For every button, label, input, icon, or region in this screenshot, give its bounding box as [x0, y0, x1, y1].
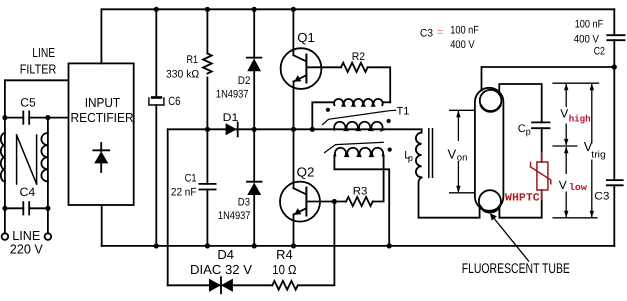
wire C6 branch bottom	[155, 105, 157, 246]
measurement tick top	[552, 82, 599, 84]
wire oscillator drop (bus to diac rail)	[167, 129, 169, 285]
capacitor C1	[199, 184, 215, 190]
svg-text:WHPTC: WHPTC	[505, 192, 540, 204]
svg-text:100 nF: 100 nF	[575, 19, 604, 31]
wire D2 top lead	[253, 9, 255, 58]
node C4 right	[45, 206, 50, 211]
node bus / winding A	[310, 127, 315, 132]
node bus / Q1-Q2	[291, 127, 296, 132]
Vtrig arrow	[590, 83, 594, 218]
wire Lp bottom to tube lower-left pin	[419, 177, 480, 217]
node bottom rail / C6	[154, 243, 159, 248]
svg-text:trig: trig	[591, 150, 606, 161]
wire line filter top (to rectifier)	[5, 79, 69, 81]
node top rail / C6	[154, 7, 159, 12]
wire tube upper-left pin to C2 rail	[482, 67, 615, 91]
node bottom rail / C1	[205, 243, 210, 248]
T1 core separator 1	[323, 110, 396, 124]
svg-text:400 V: 400 V	[574, 33, 600, 45]
resistor R2	[341, 63, 368, 72]
svg-text:R2: R2	[352, 51, 365, 63]
wire D3 top lead	[253, 129, 255, 182]
capacitor C6	[149, 96, 164, 105]
Vhigh arrow	[564, 83, 568, 146]
svg-text:p: p	[408, 153, 413, 163]
wire line filter right vertical	[47, 118, 49, 234]
node top rail / Q1 collector	[291, 7, 296, 12]
wire T1 winding C left return	[334, 155, 389, 246]
wire C6 branch top	[155, 9, 157, 96]
wire T1 winding A left lead	[312, 102, 333, 129]
measurement tick middle	[552, 145, 577, 147]
wire diac rail left	[168, 284, 273, 286]
svg-text:Q1: Q1	[297, 30, 315, 45]
phase dot winding B	[387, 119, 391, 123]
capacitor C2	[607, 35, 624, 40]
svg-text:10 Ω: 10 Ω	[272, 262, 296, 277]
svg-text:C3: C3	[594, 191, 609, 203]
node C5 right	[45, 115, 50, 120]
node top rail / D2	[252, 7, 257, 12]
svg-text:400 V: 400 V	[450, 39, 475, 51]
wire rectifier top pin	[100, 9, 102, 63]
node bus / D2-D3	[252, 127, 257, 132]
svg-text:C3: C3	[420, 28, 433, 40]
wire tube upper-right pin to Cp	[499, 84, 541, 122]
svg-text:high: high	[569, 114, 591, 125]
wire rectifier bottom pin	[101, 205, 103, 246]
tube bottom electrode	[479, 190, 501, 212]
node C5 left	[2, 115, 7, 120]
svg-text:R4: R4	[276, 247, 293, 262]
resistor R1	[203, 54, 212, 74]
svg-text:D3: D3	[238, 197, 250, 209]
node bottom rail / winding C return	[387, 243, 392, 248]
wire right rail upper (to C2)	[613, 9, 615, 35]
Von arrow	[449, 110, 475, 193]
svg-text:V: V	[448, 147, 457, 162]
input rectifier box U1	[69, 63, 134, 205]
svg-text:V: V	[559, 178, 567, 192]
wire C1 bottom lead	[206, 190, 208, 246]
diode D1	[226, 122, 238, 136]
svg-text:1N4937: 1N4937	[218, 210, 251, 222]
svg-text:=: =	[437, 26, 443, 38]
node C4 left	[2, 206, 7, 211]
T1 core separator 2	[325, 142, 384, 152]
diode inside rectifier	[93, 143, 109, 172]
measurement arrows	[449, 83, 599, 261]
diac D4	[209, 277, 233, 293]
svg-text:Q2: Q2	[297, 165, 315, 180]
resistor R4	[272, 281, 297, 290]
svg-text:R1: R1	[187, 54, 199, 66]
svg-text:LINE: LINE	[32, 45, 55, 60]
wire R1 to bus	[206, 78, 208, 130]
fluorescent tube pointer arrow	[490, 213, 529, 261]
svg-text:p: p	[526, 126, 531, 136]
diode D3	[247, 182, 262, 195]
phase dot winding A	[326, 108, 330, 112]
wire T1 winding A right lead	[383, 101, 390, 103]
wire C5 rail	[5, 117, 69, 119]
transistor Q1	[281, 9, 341, 129]
svg-text:DIAC 32 V: DIAC 32 V	[190, 262, 252, 277]
fluorescent tube outline	[475, 88, 504, 211]
transformer T1 winding B (on bus)	[334, 122, 385, 130]
svg-text:D1: D1	[223, 112, 239, 124]
node Q2 base / R3	[332, 199, 337, 204]
line filter core (N mark)	[17, 135, 37, 184]
inductor L1 line filter left winding	[1, 133, 5, 181]
node C2 / tube wire	[612, 64, 617, 69]
svg-text:R3: R3	[353, 186, 368, 198]
wire Cp to PTC	[541, 128, 543, 162]
svg-text:100 nF: 100 nF	[450, 25, 479, 37]
wire R1 top lead	[206, 9, 208, 53]
wire D3 bottom lead	[253, 195, 255, 246]
capacitor C3	[607, 180, 623, 185]
wire PTC to tube lower-right pin	[499, 190, 541, 218]
transformer T1 winding C	[334, 148, 383, 156]
svg-text:C1: C1	[185, 173, 197, 185]
node bus / R1-C1	[205, 127, 210, 132]
capacitor C5	[23, 111, 29, 123]
wire C4 rail	[5, 207, 48, 209]
node bottom rail / Q2 emitter	[291, 243, 296, 248]
svg-text:220 V: 220 V	[10, 242, 43, 257]
diode D2	[247, 58, 262, 72]
wire top rail	[101, 8, 614, 10]
wire C1 top lead	[206, 129, 208, 184]
wire bottom rail	[102, 245, 615, 247]
inductor Lp primary	[416, 133, 422, 178]
svg-text:C2: C2	[594, 46, 605, 58]
Vlow arrow	[564, 146, 568, 218]
svg-text:INPUT: INPUT	[85, 95, 120, 110]
PTC thermistor WHPTC (red)	[531, 152, 551, 200]
svg-text:22 nF: 22 nF	[171, 186, 197, 198]
terminal LINE right	[45, 233, 52, 240]
svg-text:T1: T1	[397, 106, 410, 118]
svg-text:FILTER: FILTER	[20, 62, 57, 77]
wire T1 winding C right lead to R3	[373, 155, 384, 201]
svg-text:C4: C4	[20, 185, 36, 199]
svg-text:on: on	[457, 153, 468, 164]
wire right rail middle (C2 to C3)	[613, 40, 615, 180]
measurement tick bottom	[552, 217, 597, 219]
wire D2 to bus	[253, 71, 255, 129]
wire line filter left vertical	[4, 80, 6, 233]
node top rail / R1	[205, 7, 210, 12]
wire R2 to T1 winding A	[368, 67, 391, 102]
svg-text:V: V	[560, 107, 568, 121]
svg-text:1N4937: 1N4937	[216, 89, 249, 101]
resistor R3	[346, 197, 373, 206]
svg-text:FLUORESCENT TUBE: FLUORESCENT TUBE	[462, 260, 570, 276]
transformer T1 winding A	[334, 99, 383, 106]
terminal LINE left	[2, 233, 9, 240]
svg-text:C6: C6	[168, 94, 180, 108]
wire right rail lower (C3 to bottom)	[613, 185, 615, 246]
transistor Q2	[280, 129, 346, 246]
tube top electrode	[480, 90, 502, 112]
wire mid bus	[168, 129, 422, 132]
svg-text:C5: C5	[20, 95, 36, 109]
svg-text:330 kΩ: 330 kΩ	[166, 69, 199, 81]
Lp core lines	[429, 129, 433, 178]
svg-text:D4: D4	[217, 247, 234, 262]
phase dot winding C	[388, 148, 392, 152]
svg-text:D2: D2	[238, 75, 251, 87]
inductor L2 line filter right winding	[41, 133, 48, 181]
svg-text:low: low	[569, 182, 587, 193]
capacitor C4	[23, 202, 29, 214]
wire diac rail right riser	[298, 202, 335, 286]
svg-text:RECTIFIER: RECTIFIER	[71, 110, 134, 125]
capacitor Cp	[532, 122, 550, 128]
svg-text:C: C	[518, 123, 526, 135]
node bottom rail / D3	[252, 243, 257, 248]
